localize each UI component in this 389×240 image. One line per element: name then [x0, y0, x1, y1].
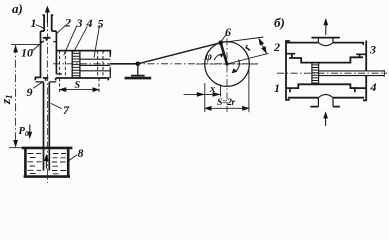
svg-text:а): а) [12, 1, 23, 16]
pivot support stem [137, 64, 139, 76]
b lower-right port land [351, 88, 358, 92]
b bottom port neck [318, 98, 333, 107]
svg-text:2: 2 [273, 40, 280, 54]
b upper-left step [289, 57, 363, 62]
b spool rod [319, 71, 385, 76]
ground bars [131, 75, 145, 77]
x dimension [204, 83, 206, 112]
svg-text:6: 6 [225, 25, 231, 39]
pipe outlet arrow in tank [45, 158, 47, 169]
svg-text:5: 5 [98, 17, 104, 31]
svg-text:φ: φ [205, 51, 212, 63]
b bottom port mouth arc [318, 95, 333, 98]
liquid level dashes [28, 154, 67, 174]
svg-text:2: 2 [64, 16, 71, 30]
S=2r dimension [248, 70, 250, 112]
r dimension: line through center [227, 53, 269, 64]
b centerline [277, 72, 387, 74]
crank disk circle [205, 42, 250, 87]
b upper-right port land [356, 54, 366, 57]
svg-text:10: 10 [21, 46, 33, 60]
b housing bottom line [288, 97, 364, 99]
b housing right wall [363, 41, 366, 101]
piston rod 5 [80, 59, 110, 71]
svg-text:4: 4 [370, 80, 377, 94]
b rod end tick [383, 70, 385, 77]
pipe 7 walls [44, 82, 50, 171]
crank centerlines [196, 63, 258, 65]
centerline of vertical pipe [46, 20, 48, 183]
crank center dot [225, 62, 228, 65]
r dimension: line through pin [221, 37, 264, 43]
lever bar to pivot [110, 63, 138, 65]
tank walls [25, 149, 68, 176]
cylinder top line [56, 51, 110, 55]
pipe flange horizontals [36, 74, 62, 82]
piston 4 (hatched block) [72, 51, 80, 78]
hidden port lines (dashed) [60, 51, 103, 93]
angle phi arc [214, 54, 223, 60]
b housing top line [286, 43, 363, 45]
z1 dimension line [15, 45, 17, 147]
b top arrow [325, 22, 327, 36]
valve seat ledges [41, 41, 57, 43]
svg-text:3: 3 [369, 43, 376, 57]
valve disc 10 (upper poppet) [43, 38, 51, 41]
svg-text:x: x [209, 84, 215, 95]
b top port neck [318, 38, 333, 43]
valve body shoulders [41, 30, 57, 32]
b lower-left step [294, 84, 367, 88]
tank bottom [24, 175, 70, 178]
r double arrow [259, 39, 267, 54]
svg-text:б): б) [274, 15, 285, 30]
svg-text:Р0: Р0 [19, 126, 29, 138]
z1 dimension extension bottom [9, 147, 26, 149]
pipe 1 (upper tube) [43, 15, 54, 31]
crank arm [221, 43, 227, 64]
rotation direction arrow [234, 60, 240, 73]
b spool (hatched) [312, 62, 319, 83]
z1 dimension extension top [11, 44, 40, 46]
b top port mouth arc [318, 43, 333, 46]
valve disc 9 (lower poppet) [43, 78, 48, 81]
horizontal centerline (cylinder-lever-crank axis) [53, 63, 258, 65]
b bottom arrow [325, 115, 327, 126]
svg-text:S: S [75, 80, 81, 91]
top flow arrow [46, 10, 48, 24]
tank 8 rim [22, 147, 73, 150]
S dimension extension dashed [60, 78, 99, 93]
svg-text:8: 8 [78, 146, 84, 160]
valve body right wall [55, 31, 57, 74]
svg-text:S=2r: S=2r [217, 97, 235, 108]
P0 down arrow [29, 125, 31, 136]
crank pin 6 [218, 40, 223, 45]
pivot dot [136, 62, 141, 67]
svg-text:1: 1 [31, 16, 37, 30]
svg-text:1: 1 [274, 81, 280, 95]
b lower-left port land [286, 88, 294, 92]
b upper-left port land [286, 54, 295, 58]
valve body left wall [35, 31, 40, 80]
cylinder right wall segments [109, 51, 111, 78]
b bottom port flange [310, 106, 340, 108]
cylinder bottom line [56, 78, 109, 80]
connecting link from pivot to crank pin 6 [138, 43, 221, 64]
svg-text:7: 7 [63, 103, 70, 117]
svg-text:3: 3 [76, 16, 83, 30]
b top port flange [311, 37, 340, 39]
b housing left wall [286, 41, 290, 100]
dimension S [60, 89, 99, 91]
svg-text:9: 9 [27, 85, 33, 99]
svg-text:z1: z1 [0, 94, 14, 105]
svg-text:r: r [240, 42, 255, 52]
